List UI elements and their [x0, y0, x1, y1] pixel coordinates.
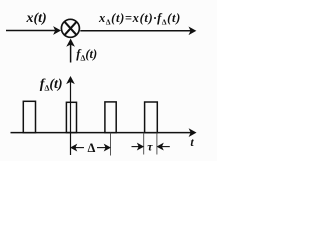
svg-text:x∆(t)=x(t)·f∆(t): x∆(t)=x(t)·f∆(t): [98, 11, 181, 27]
svg-text:Δ: Δ: [88, 141, 96, 155]
pulse 4: [145, 102, 158, 133]
svg-text:τ: τ: [147, 140, 153, 154]
tau dimension right extension line: [156, 133, 158, 155]
axis: t horizontal baseline: [11, 132, 191, 134]
delta dimension right extension line: [110, 133, 112, 156]
svg-text:f∆(t): f∆(t): [76, 47, 97, 63]
arrowhead: input into multiplier: [54, 27, 60, 34]
wire: vertical fD(t) input line: [70, 44, 72, 63]
axis: vertical fD(t) axis line (also delta left extension): [70, 82, 72, 155]
svg-text:f∆(t): f∆(t): [40, 77, 63, 93]
wire: output line: [80, 30, 190, 32]
multiplier U1 circle: [61, 19, 79, 37]
delta dimension left arrow: [74, 147, 84, 149]
arrowhead: t axis right: [190, 129, 196, 136]
tau dimension left arrow pointing right: [132, 146, 141, 148]
multiplier U1 X symbol: [65, 22, 76, 34]
pulse 1: [23, 101, 35, 132]
arrowhead: output right: [189, 27, 195, 34]
delta dimension right arrow: [97, 147, 107, 149]
pulse 2: [66, 102, 76, 132]
arrowhead: axis up: [67, 77, 74, 83]
arrowhead: up into multiplier: [67, 39, 74, 45]
svg-text:x(t): x(t): [26, 11, 47, 26]
tau dimension right arrow pointing left: [161, 146, 170, 148]
pulse 3: [105, 102, 116, 133]
wire: input x(t) horizontal line: [6, 30, 55, 32]
tau dimension left extension line: [143, 133, 145, 155]
